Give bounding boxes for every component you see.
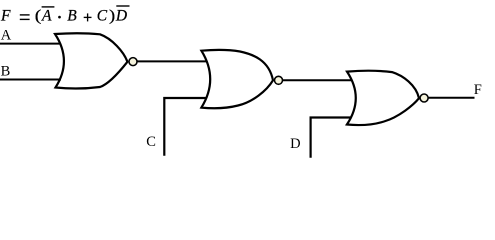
svg-text:B: B — [1, 63, 11, 79]
NOR gate U1 — [55, 33, 127, 88]
svg-text:F: F — [474, 82, 482, 98]
svg-text:F: F — [0, 7, 11, 24]
svg-text:(: ( — [35, 6, 42, 25]
wire B input — [0, 79, 61, 81]
svg-text:D: D — [290, 136, 300, 152]
wire U2 output to U3 input — [282, 79, 352, 81]
bubble of U2 — [275, 76, 283, 84]
bubble of U3 — [420, 94, 428, 102]
svg-text:C: C — [146, 134, 156, 150]
wire A input — [0, 43, 61, 45]
svg-text:C: C — [97, 7, 108, 24]
NOR gate U2 — [201, 50, 273, 108]
svg-text:A: A — [1, 27, 12, 43]
svg-text:D: D — [115, 7, 127, 24]
bubble of U1 — [129, 58, 137, 66]
formula F = (A·B + C)D with overlines — [0, 6, 130, 25]
wire U3 output to F — [428, 97, 475, 99]
wire U1 output to U2 input — [137, 60, 206, 62]
NOR gate U3 — [347, 71, 419, 125]
svg-text:): ) — [109, 7, 115, 25]
svg-text:A: A — [41, 7, 52, 24]
wire C vertical — [164, 98, 206, 156]
wire D vertical — [311, 118, 352, 158]
svg-text:B: B — [67, 7, 77, 24]
